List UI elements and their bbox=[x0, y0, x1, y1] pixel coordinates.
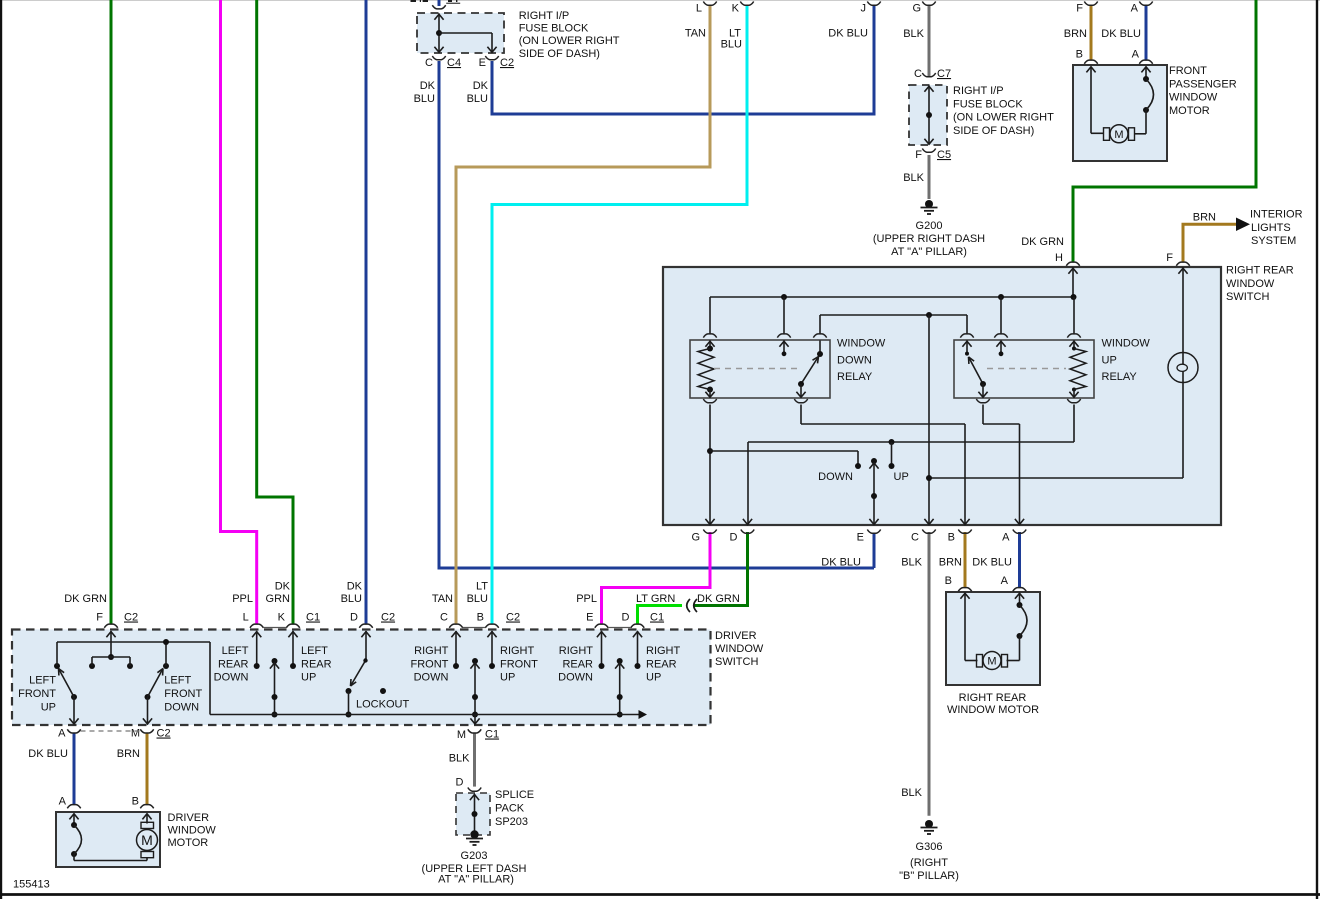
svg-text:C7: C7 bbox=[937, 68, 951, 80]
svg-text:B: B bbox=[132, 796, 139, 808]
svg-text:BRN: BRN bbox=[1064, 28, 1087, 40]
svg-text:B: B bbox=[948, 532, 955, 544]
svg-text:LEFT: LEFT bbox=[164, 675, 191, 687]
svg-text:SPLICE: SPLICE bbox=[495, 789, 534, 801]
svg-text:LT: LT bbox=[476, 581, 488, 593]
svg-text:M: M bbox=[987, 655, 996, 667]
svg-text:A: A bbox=[1132, 49, 1140, 61]
svg-text:BRN: BRN bbox=[117, 748, 140, 760]
svg-text:RIGHT I/P: RIGHT I/P bbox=[953, 85, 1004, 97]
svg-text:INTERIOR: INTERIOR bbox=[1250, 209, 1303, 221]
svg-text:K: K bbox=[278, 612, 286, 624]
svg-text:BLK: BLK bbox=[901, 557, 922, 569]
svg-text:FRONT: FRONT bbox=[1169, 65, 1207, 77]
svg-text:RIGHT REAR: RIGHT REAR bbox=[959, 692, 1027, 704]
svg-text:UP: UP bbox=[301, 672, 316, 684]
svg-text:DOWN: DOWN bbox=[837, 354, 872, 366]
svg-text:DK GRN: DK GRN bbox=[697, 593, 740, 605]
svg-text:WINDOW: WINDOW bbox=[1226, 278, 1275, 290]
svg-text:G306: G306 bbox=[916, 841, 943, 853]
svg-text:DK GRN: DK GRN bbox=[64, 593, 107, 605]
svg-text:SWITCH: SWITCH bbox=[1226, 291, 1269, 303]
svg-text:B: B bbox=[1076, 49, 1083, 61]
svg-text:UP: UP bbox=[894, 471, 909, 483]
svg-text:BLK: BLK bbox=[903, 28, 924, 40]
svg-text:F: F bbox=[1076, 3, 1083, 15]
svg-text:REAR: REAR bbox=[301, 658, 332, 670]
svg-text:LOCKOUT: LOCKOUT bbox=[356, 699, 409, 711]
svg-text:BLK: BLK bbox=[449, 753, 470, 765]
svg-text:DK GRN: DK GRN bbox=[1021, 236, 1064, 248]
svg-text:(ON LOWER RIGHT: (ON LOWER RIGHT bbox=[953, 112, 1054, 124]
svg-text:REAR: REAR bbox=[562, 658, 593, 670]
svg-text:RIGHT: RIGHT bbox=[500, 645, 535, 657]
svg-text:WINDOW: WINDOW bbox=[168, 825, 217, 837]
svg-text:MOTOR: MOTOR bbox=[168, 837, 209, 849]
svg-text:J: J bbox=[861, 3, 867, 15]
svg-text:LIGHTS: LIGHTS bbox=[1251, 222, 1291, 234]
svg-text:DOWN: DOWN bbox=[214, 672, 249, 684]
svg-text:155413: 155413 bbox=[13, 879, 50, 891]
svg-text:UP: UP bbox=[646, 672, 661, 684]
svg-text:C: C bbox=[425, 57, 433, 69]
svg-text:RELAY: RELAY bbox=[1102, 371, 1138, 383]
svg-text:DRIVER: DRIVER bbox=[715, 630, 757, 642]
svg-text:RELAY: RELAY bbox=[837, 371, 873, 383]
svg-text:DK BLU: DK BLU bbox=[828, 28, 868, 40]
svg-text:PASSENGER: PASSENGER bbox=[1169, 78, 1237, 90]
svg-text:C2: C2 bbox=[157, 728, 171, 740]
svg-text:"B" PILLAR): "B" PILLAR) bbox=[899, 870, 959, 882]
svg-text:TAN: TAN bbox=[685, 28, 706, 40]
svg-text:PPL: PPL bbox=[232, 593, 253, 605]
svg-text:C: C bbox=[440, 612, 448, 624]
svg-text:TAN: TAN bbox=[432, 593, 453, 605]
svg-text:FRONT: FRONT bbox=[411, 658, 449, 670]
svg-text:A: A bbox=[1131, 3, 1139, 15]
svg-text:WINDOW: WINDOW bbox=[837, 338, 886, 350]
svg-text:DK BLU: DK BLU bbox=[972, 557, 1012, 569]
svg-text:DRIVER: DRIVER bbox=[168, 812, 210, 824]
svg-text:WINDOW: WINDOW bbox=[1169, 92, 1218, 104]
svg-text:RIGHT: RIGHT bbox=[559, 645, 594, 657]
svg-text:BLK: BLK bbox=[903, 172, 924, 184]
svg-text:BRN: BRN bbox=[1193, 212, 1216, 224]
svg-text:D: D bbox=[350, 612, 358, 624]
svg-text:AT "A" PILLAR): AT "A" PILLAR) bbox=[891, 246, 967, 258]
svg-text:DK: DK bbox=[347, 581, 363, 593]
svg-text:D: D bbox=[456, 777, 464, 789]
svg-text:AT "A" PILLAR): AT "A" PILLAR) bbox=[438, 874, 514, 886]
svg-text:DK BLU: DK BLU bbox=[28, 748, 68, 760]
svg-text:FRONT: FRONT bbox=[164, 688, 202, 700]
svg-text:C2: C2 bbox=[506, 612, 520, 624]
svg-text:E: E bbox=[479, 57, 486, 69]
svg-text:REAR: REAR bbox=[646, 658, 677, 670]
svg-text:G: G bbox=[912, 3, 921, 15]
svg-text:UP: UP bbox=[500, 672, 515, 684]
svg-text:SWITCH: SWITCH bbox=[715, 656, 758, 668]
svg-text:REAR: REAR bbox=[218, 658, 249, 670]
svg-text:DOWN: DOWN bbox=[558, 672, 593, 684]
svg-text:D: D bbox=[730, 532, 738, 544]
svg-text:M: M bbox=[1114, 129, 1123, 141]
svg-text:PACK: PACK bbox=[495, 803, 525, 815]
svg-text:DK: DK bbox=[473, 80, 489, 92]
svg-text:SIDE OF DASH): SIDE OF DASH) bbox=[953, 125, 1034, 137]
svg-text:DK: DK bbox=[275, 581, 291, 593]
svg-text:F: F bbox=[915, 149, 922, 161]
svg-text:PPL: PPL bbox=[576, 593, 597, 605]
svg-text:B: B bbox=[945, 575, 952, 587]
svg-text:MOTOR: MOTOR bbox=[1169, 105, 1210, 117]
svg-text:DK BLU: DK BLU bbox=[1101, 28, 1141, 40]
svg-text:G: G bbox=[691, 532, 700, 544]
svg-text:D: D bbox=[622, 612, 630, 624]
svg-text:WINDOW: WINDOW bbox=[1102, 338, 1151, 350]
svg-text:H: H bbox=[1055, 252, 1063, 264]
svg-text:BLU: BLU bbox=[467, 93, 488, 105]
svg-text:DOWN: DOWN bbox=[164, 701, 199, 713]
svg-text:BLU: BLU bbox=[341, 593, 362, 605]
svg-text:M: M bbox=[457, 729, 466, 741]
svg-text:DK BLU: DK BLU bbox=[821, 557, 861, 569]
svg-text:DOWN: DOWN bbox=[818, 471, 853, 483]
svg-text:C1: C1 bbox=[485, 729, 499, 741]
svg-text:E: E bbox=[857, 532, 864, 544]
svg-text:(ON LOWER RIGHT: (ON LOWER RIGHT bbox=[519, 35, 620, 47]
svg-text:C1: C1 bbox=[306, 612, 320, 624]
svg-text:K: K bbox=[732, 3, 740, 15]
svg-text:A: A bbox=[59, 796, 67, 808]
svg-text:M: M bbox=[141, 832, 153, 848]
svg-text:LEFT: LEFT bbox=[301, 645, 328, 657]
svg-text:C4: C4 bbox=[447, 57, 461, 69]
svg-text:BLK: BLK bbox=[901, 787, 922, 799]
svg-text:RIGHT: RIGHT bbox=[646, 645, 681, 657]
svg-text:RIGHT: RIGHT bbox=[414, 645, 449, 657]
svg-text:E: E bbox=[586, 612, 593, 624]
svg-text:RIGHT I/P: RIGHT I/P bbox=[519, 10, 570, 22]
svg-text:UP: UP bbox=[1102, 354, 1117, 366]
svg-text:DK: DK bbox=[420, 80, 436, 92]
svg-text:L: L bbox=[243, 612, 249, 624]
svg-text:A: A bbox=[1001, 575, 1009, 587]
svg-text:RIGHT REAR: RIGHT REAR bbox=[1226, 265, 1294, 277]
svg-text:C2: C2 bbox=[500, 57, 514, 69]
svg-text:SP203: SP203 bbox=[495, 816, 528, 828]
svg-text:DOWN: DOWN bbox=[414, 672, 449, 684]
svg-text:C2: C2 bbox=[124, 612, 138, 624]
svg-text:FRONT: FRONT bbox=[500, 658, 538, 670]
svg-text:BLU: BLU bbox=[414, 93, 435, 105]
svg-text:G203: G203 bbox=[461, 850, 488, 862]
svg-text:SYSTEM: SYSTEM bbox=[1251, 235, 1296, 247]
svg-text:(RIGHT: (RIGHT bbox=[910, 857, 948, 869]
svg-text:BLU: BLU bbox=[467, 593, 488, 605]
svg-text:C: C bbox=[914, 68, 922, 80]
svg-text:(UPPER RIGHT DASH: (UPPER RIGHT DASH bbox=[873, 233, 985, 245]
svg-text:LEFT: LEFT bbox=[29, 675, 56, 687]
svg-text:WINDOW: WINDOW bbox=[715, 643, 764, 655]
svg-text:GRN: GRN bbox=[266, 593, 291, 605]
svg-text:LEFT: LEFT bbox=[222, 645, 249, 657]
svg-text:C5: C5 bbox=[937, 149, 951, 161]
svg-text:LT GRN: LT GRN bbox=[636, 593, 675, 605]
svg-text:A: A bbox=[58, 728, 66, 740]
svg-text:C: C bbox=[911, 532, 919, 544]
svg-text:UP: UP bbox=[41, 701, 56, 713]
svg-text:L: L bbox=[696, 3, 702, 15]
svg-text:B: B bbox=[477, 612, 484, 624]
svg-text:WINDOW MOTOR: WINDOW MOTOR bbox=[947, 704, 1039, 716]
svg-text:SIDE OF DASH): SIDE OF DASH) bbox=[519, 48, 600, 60]
svg-text:BLU: BLU bbox=[721, 39, 742, 51]
svg-text:M: M bbox=[131, 728, 140, 740]
svg-text:A: A bbox=[1002, 532, 1010, 544]
svg-text:F: F bbox=[96, 612, 103, 624]
svg-text:F: F bbox=[1166, 252, 1173, 264]
svg-text:C2: C2 bbox=[381, 612, 395, 624]
svg-text:FUSE BLOCK: FUSE BLOCK bbox=[953, 98, 1023, 110]
svg-text:FUSE BLOCK: FUSE BLOCK bbox=[519, 23, 589, 35]
svg-text:FRONT: FRONT bbox=[18, 688, 56, 700]
svg-text:G200: G200 bbox=[916, 220, 943, 232]
svg-text:BRN: BRN bbox=[939, 557, 962, 569]
svg-text:C1: C1 bbox=[650, 612, 664, 624]
